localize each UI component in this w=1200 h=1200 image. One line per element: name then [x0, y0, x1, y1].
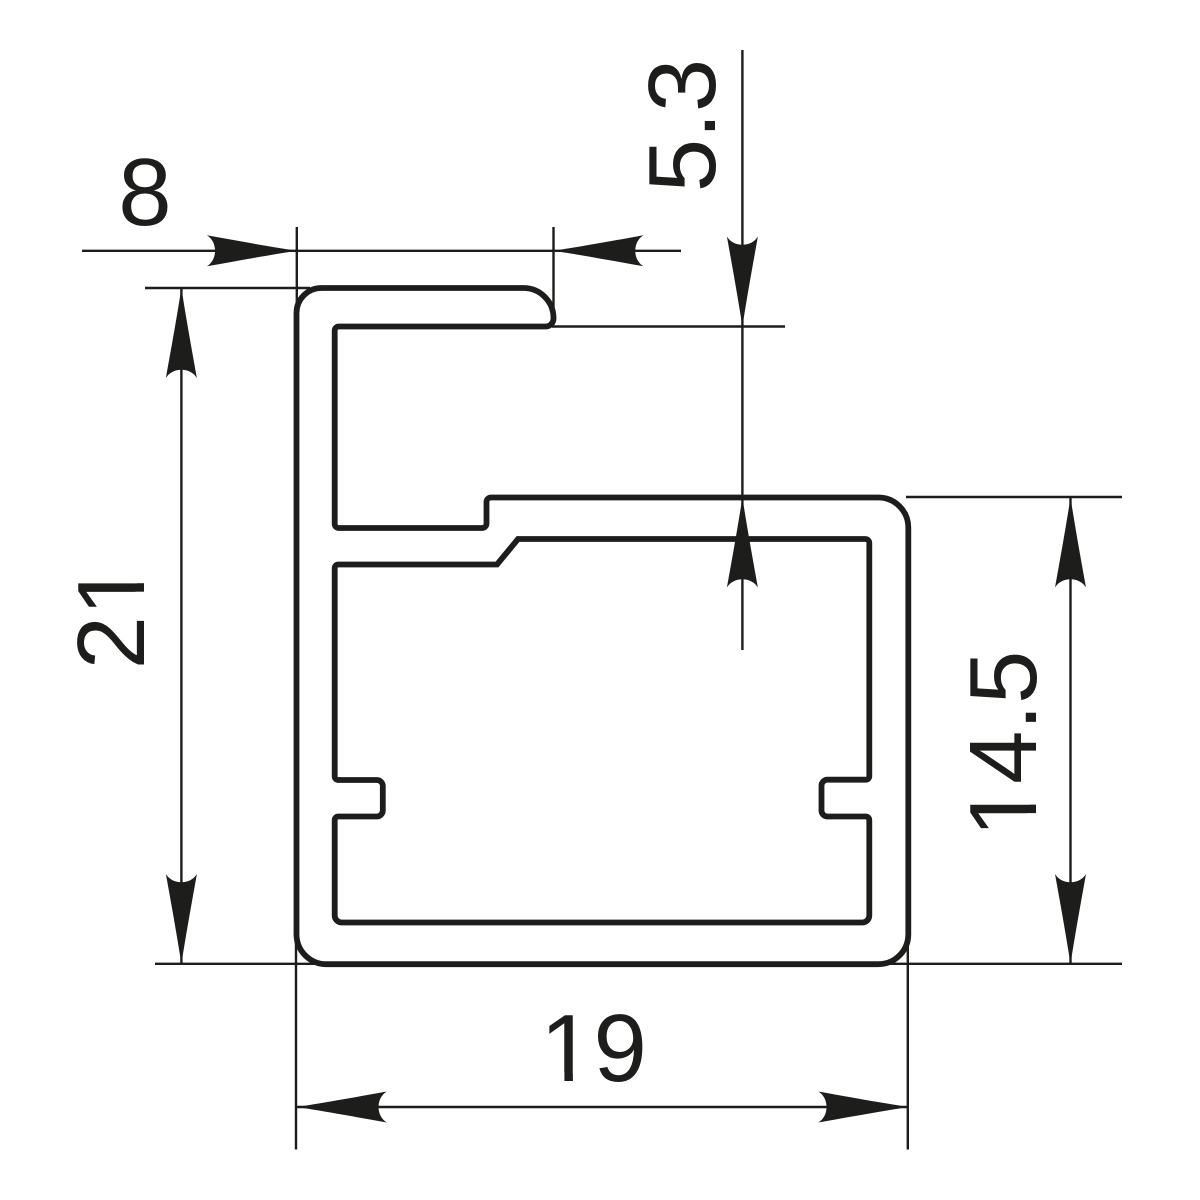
dimension 19: left extension line: [295, 940, 297, 1150]
dimension 14.5: dimension line: [1069, 498, 1071, 965]
arrowhead 21 bottom (points down): [166, 874, 197, 964]
arrowhead 14.5 top (points up): [1055, 498, 1086, 588]
arrowhead 19 right (points right): [818, 1092, 908, 1123]
arrowhead 14.5 bottom (points down): [1055, 874, 1086, 964]
label 19: [540, 995, 647, 1102]
profile inner cavity: [335, 539, 870, 923]
dimension 14.5: top extension line: [906, 496, 1122, 498]
label 14.5 (rotated): [950, 651, 1057, 838]
dimension 5.3: vertical dimension line: [741, 50, 743, 650]
dimension 19: right extension line: [907, 940, 909, 1150]
arrowhead 8 left (points right): [207, 235, 297, 266]
label 21 (rotated): [58, 563, 165, 670]
arrowhead 21 top (points up): [166, 288, 197, 378]
dimension 8: right extension line: [552, 227, 554, 310]
arrowhead 5.3 upper (points down, tip on tick line): [727, 237, 758, 327]
dimension 8: left extension line: [296, 227, 298, 303]
dimension 21: dimension line: [180, 288, 182, 964]
dimension 8: dimension line: [82, 250, 681, 252]
svg-text:19: 19: [540, 995, 647, 1102]
arrowhead 8 right (points left): [554, 235, 644, 266]
svg-text:21: 21: [58, 563, 165, 670]
dimension 5.3: tick extension line: [552, 325, 785, 327]
svg-text:8: 8: [118, 139, 171, 246]
arrowhead 19 left (points left): [297, 1092, 387, 1123]
profile outer outline: [297, 288, 909, 964]
svg-text:14.5: 14.5: [950, 651, 1057, 838]
dimension 21: top extension line: [145, 287, 310, 289]
arrowhead 5.3 lower (points up, tip on box top): [727, 498, 758, 588]
dimension 19: dimension line: [297, 1106, 909, 1108]
svg-text:5.3: 5.3: [629, 59, 736, 192]
shared bottom extension line: [155, 963, 1122, 965]
